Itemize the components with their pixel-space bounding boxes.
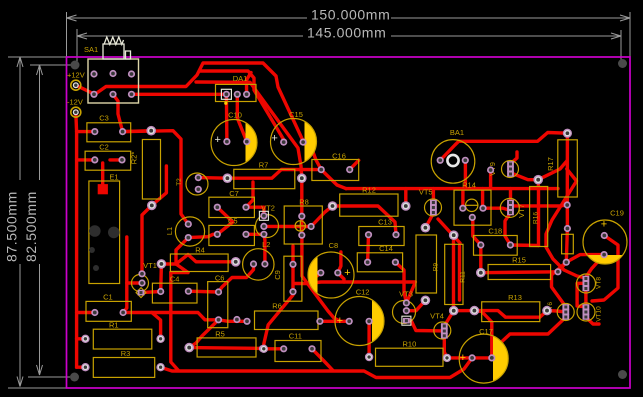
wire bbox=[546, 169, 586, 278]
wire bbox=[113, 94, 123, 131]
svg-text:+12V: +12V bbox=[67, 71, 85, 80]
svg-text:C18: C18 bbox=[488, 227, 502, 236]
transistor VT1 outline bbox=[132, 275, 149, 292]
R8 pads bbox=[298, 213, 305, 220]
svg-text:R12: R12 bbox=[362, 186, 376, 195]
svg-text:+: + bbox=[460, 352, 466, 364]
transistor VT8 outline bbox=[577, 274, 596, 293]
wire bbox=[509, 189, 512, 202]
svg-text:R2*: R2* bbox=[130, 152, 139, 165]
wire bbox=[481, 270, 558, 274]
SA1 pads bbox=[90, 70, 97, 77]
R4 pads bbox=[157, 259, 167, 269]
svg-text:C3: C3 bbox=[99, 114, 109, 123]
resistor R3 bbox=[93, 358, 154, 378]
svg-text:E1: E1 bbox=[109, 173, 118, 182]
wire bbox=[333, 206, 397, 235]
R12 pads bbox=[328, 201, 338, 211]
svg-text:R15: R15 bbox=[512, 256, 526, 265]
capacitor C15 outline bbox=[271, 119, 317, 165]
svg-text:+: + bbox=[271, 133, 277, 145]
VT1 pads bbox=[138, 270, 145, 277]
svg-text:T2: T2 bbox=[176, 178, 183, 186]
wire bbox=[188, 234, 217, 237]
inductor L2 outline bbox=[243, 249, 274, 280]
svg-text:C9: C9 bbox=[273, 270, 282, 280]
svg-text:150.000mm: 150.000mm bbox=[311, 7, 390, 23]
wire bbox=[127, 237, 142, 283]
IC DA1 bbox=[216, 84, 257, 101]
wire bbox=[338, 252, 341, 273]
svg-text:C2: C2 bbox=[99, 143, 109, 152]
svg-text:+: + bbox=[601, 219, 607, 231]
VT9 pads bbox=[507, 161, 514, 167]
via bbox=[233, 316, 240, 323]
wire bbox=[123, 131, 189, 224]
wire bbox=[141, 292, 161, 293]
wire bbox=[584, 289, 587, 307]
via bbox=[487, 166, 494, 173]
C15 pads bbox=[280, 139, 287, 146]
wire bbox=[346, 187, 558, 190]
svg-text:VT10: VT10 bbox=[596, 306, 603, 322]
wire bbox=[74, 112, 78, 367]
wire bbox=[264, 225, 311, 229]
C3 pads bbox=[91, 128, 98, 135]
svg-text:+: + bbox=[337, 315, 343, 327]
wire bbox=[495, 317, 566, 348]
potentiometer R8 bbox=[284, 206, 322, 244]
C20 pads bbox=[564, 225, 571, 232]
transistor VT4 outline bbox=[434, 322, 451, 339]
R1 pads bbox=[81, 335, 89, 343]
transistor VT7 outline bbox=[500, 198, 519, 217]
wire bbox=[511, 205, 568, 206]
wire bbox=[511, 161, 567, 180]
VT10 pads bbox=[583, 304, 590, 310]
C13 pads bbox=[365, 231, 372, 238]
capacitor C18 bbox=[474, 236, 518, 256]
svg-text:C10: C10 bbox=[228, 111, 242, 120]
wire bbox=[264, 347, 284, 350]
wire bbox=[189, 348, 264, 349]
wire bbox=[123, 313, 218, 320]
C11 pads bbox=[280, 345, 287, 352]
wire bbox=[438, 219, 460, 243]
transistor VT9 outline bbox=[502, 161, 519, 178]
capacitor C4 bbox=[152, 283, 197, 303]
wire bbox=[171, 271, 188, 274]
connector SA1 outline bbox=[88, 59, 139, 103]
VT6 pads bbox=[562, 304, 569, 310]
wire bbox=[566, 255, 604, 263]
C4 pads bbox=[157, 288, 164, 295]
capacitor C14 bbox=[357, 253, 402, 272]
wire bbox=[101, 163, 104, 184]
svg-text:R7: R7 bbox=[259, 161, 269, 170]
resistor R7 bbox=[234, 169, 295, 188]
resistor R6 bbox=[255, 311, 319, 330]
svg-text:L1: L1 bbox=[165, 227, 174, 235]
wire bbox=[505, 213, 511, 246]
svg-text:C17: C17 bbox=[479, 327, 493, 336]
plug symbol bbox=[103, 44, 131, 59]
wire bbox=[77, 130, 95, 133]
R5 pads bbox=[184, 343, 194, 353]
wire bbox=[176, 264, 188, 273]
wire bbox=[452, 241, 455, 306]
battery BA1 bbox=[431, 140, 475, 184]
svg-text:R13: R13 bbox=[508, 293, 522, 302]
svg-text:C5: C5 bbox=[228, 217, 238, 226]
capacitor C10 outline bbox=[211, 120, 257, 166]
svg-text:R16: R16 bbox=[533, 212, 540, 224]
capacitor C5 bbox=[209, 225, 255, 245]
wire bbox=[176, 238, 188, 264]
wire bbox=[95, 63, 303, 141]
wire bbox=[537, 180, 541, 246]
svg-text:87.500mm: 87.500mm bbox=[4, 191, 20, 262]
wire bbox=[461, 189, 464, 209]
transistor VT5 outline bbox=[425, 199, 442, 216]
svg-text:VT3: VT3 bbox=[399, 290, 413, 299]
svg-text:C16: C16 bbox=[332, 152, 346, 161]
wire bbox=[479, 245, 482, 273]
svg-text:R17: R17 bbox=[546, 157, 555, 171]
capacitor C19 outline bbox=[583, 220, 627, 264]
R9 pads bbox=[421, 223, 431, 233]
wire bbox=[196, 82, 302, 178]
wire bbox=[474, 311, 491, 358]
wire bbox=[110, 158, 122, 161]
svg-text:VT8: VT8 bbox=[595, 277, 602, 289]
wire bbox=[176, 255, 236, 265]
capacitor C9 bbox=[284, 256, 302, 301]
origin marker bottom-left bbox=[70, 373, 79, 382]
R15 pads bbox=[476, 268, 486, 278]
svg-text:DA1: DA1 bbox=[233, 74, 248, 83]
via bbox=[563, 129, 572, 138]
svg-text:R3: R3 bbox=[121, 349, 131, 358]
capacitor C12 outline bbox=[335, 297, 384, 346]
C7 pads bbox=[214, 204, 221, 211]
wire bbox=[350, 160, 359, 169]
capacitor C15 fill bbox=[305, 121, 317, 161]
capacitor C20 bbox=[562, 234, 574, 254]
capacitor C8 outline bbox=[308, 252, 354, 298]
wire bbox=[577, 283, 586, 306]
via bbox=[260, 345, 268, 353]
wire bbox=[458, 246, 461, 300]
inductor L1 outline bbox=[175, 217, 204, 246]
BA1 pads bbox=[437, 157, 444, 164]
capacitor C6 bbox=[208, 282, 228, 328]
capacitor C1 bbox=[86, 301, 131, 321]
wire bbox=[566, 133, 570, 205]
wire bbox=[246, 233, 264, 236]
svg-text:C8: C8 bbox=[329, 241, 339, 250]
DA1 pads bbox=[221, 89, 231, 99]
wire bbox=[552, 262, 567, 307]
wire bbox=[444, 336, 447, 358]
wire bbox=[264, 234, 265, 264]
transistor VT6 outline bbox=[557, 304, 574, 321]
resistor R16 bbox=[530, 187, 548, 247]
resistor R1 bbox=[93, 329, 152, 349]
svg-text:VT7: VT7 bbox=[517, 204, 526, 218]
capacitor C2 bbox=[85, 151, 131, 170]
resistor R12 bbox=[340, 194, 398, 216]
C10 pads bbox=[223, 138, 230, 145]
wire bbox=[338, 273, 344, 282]
VT8 pads bbox=[583, 276, 590, 282]
wire bbox=[481, 189, 484, 209]
wire bbox=[295, 282, 308, 285]
VT4 pads bbox=[441, 323, 448, 329]
capacitor C17 fill bbox=[493, 336, 508, 381]
wire bbox=[312, 349, 333, 371]
wire bbox=[133, 93, 226, 96]
svg-text:R1: R1 bbox=[109, 321, 119, 330]
wire bbox=[159, 264, 163, 292]
wire bbox=[425, 213, 433, 227]
wire bbox=[320, 320, 349, 323]
R11 pads bbox=[449, 230, 459, 240]
svg-text:C11: C11 bbox=[289, 332, 302, 341]
C19 pads bbox=[601, 232, 608, 239]
svg-text:SA1: SA1 bbox=[84, 45, 98, 54]
wire bbox=[586, 255, 604, 278]
capacitor C12 fill bbox=[372, 300, 384, 342]
C16 pads bbox=[318, 166, 325, 173]
wire bbox=[308, 284, 341, 322]
resistor R2* bbox=[142, 140, 160, 200]
wire bbox=[474, 311, 547, 318]
wire bbox=[171, 273, 178, 371]
wire bbox=[464, 160, 467, 188]
wire bbox=[198, 176, 227, 180]
transistor T2 outline bbox=[186, 173, 208, 195]
resistor R17 bbox=[558, 140, 578, 197]
capacitor C19 fill bbox=[587, 255, 622, 264]
resistor R4 bbox=[170, 254, 228, 272]
wire bbox=[77, 337, 86, 340]
svg-text:R11: R11 bbox=[459, 271, 466, 283]
R7 pads bbox=[223, 173, 233, 183]
wire bbox=[395, 262, 406, 303]
wire bbox=[247, 73, 252, 95]
svg-text:C15: C15 bbox=[289, 110, 303, 119]
svg-text:82.500mm: 82.500mm bbox=[23, 191, 39, 262]
svg-text:VT1: VT1 bbox=[143, 261, 157, 270]
svg-text:C7: C7 bbox=[229, 189, 239, 198]
R17 pad bbox=[564, 201, 571, 208]
svg-text:R8: R8 bbox=[299, 198, 309, 207]
C1 pads bbox=[91, 309, 98, 316]
wire bbox=[219, 320, 248, 322]
R6 pads bbox=[243, 318, 250, 325]
origin marker top-left bbox=[71, 61, 80, 70]
resistor R9 bbox=[416, 235, 437, 293]
wire bbox=[227, 169, 321, 178]
wire bbox=[123, 283, 127, 313]
T2 pads bbox=[195, 174, 202, 181]
resistor R13 bbox=[482, 302, 540, 322]
capacitor E1 bbox=[89, 181, 120, 284]
wire bbox=[406, 321, 444, 331]
wire bbox=[404, 189, 407, 206]
wire bbox=[300, 216, 303, 235]
wire bbox=[406, 300, 425, 310]
wire bbox=[77, 158, 95, 161]
wire bbox=[152, 313, 161, 339]
resistor R15 bbox=[488, 265, 550, 280]
wire bbox=[152, 166, 167, 205]
wire bbox=[218, 264, 254, 293]
capacitor C7 bbox=[209, 197, 255, 217]
R13 pads bbox=[470, 306, 480, 316]
C6 pads bbox=[215, 288, 222, 295]
wire bbox=[367, 321, 370, 357]
svg-text:BA1: BA1 bbox=[450, 128, 464, 137]
wire bbox=[454, 309, 475, 313]
wire bbox=[161, 262, 176, 265]
wire bbox=[246, 207, 264, 216]
wire bbox=[142, 205, 152, 273]
C2 pads bbox=[91, 156, 98, 163]
wire bbox=[483, 208, 511, 210]
svg-text:C13: C13 bbox=[378, 218, 392, 227]
C17 pads bbox=[469, 354, 476, 361]
svg-text:VT4: VT4 bbox=[430, 312, 444, 321]
svg-text:R10: R10 bbox=[403, 340, 417, 349]
C18 pads bbox=[477, 241, 484, 248]
VT5 pads bbox=[430, 200, 437, 206]
wire bbox=[302, 235, 308, 283]
potentiometer R14 bbox=[454, 190, 491, 225]
wire bbox=[447, 356, 492, 359]
svg-text:C4: C4 bbox=[170, 275, 180, 284]
svg-text:+: + bbox=[214, 134, 220, 146]
R10 pads bbox=[365, 353, 373, 361]
wire bbox=[77, 366, 86, 369]
wire bbox=[311, 206, 332, 227]
transistor VT2 outline bbox=[256, 215, 279, 238]
wire bbox=[77, 311, 95, 314]
wire bbox=[264, 246, 293, 349]
svg-text:+: + bbox=[344, 267, 350, 279]
capacitor C3 bbox=[87, 123, 131, 142]
svg-text:R14: R14 bbox=[462, 181, 476, 190]
board outline bbox=[67, 57, 631, 388]
wire bbox=[440, 141, 459, 160]
svg-text:C1: C1 bbox=[103, 293, 113, 302]
wire bbox=[300, 178, 303, 216]
C5 pads bbox=[214, 231, 221, 238]
capacitor C10 fill bbox=[246, 123, 257, 163]
transistor VT3 outline bbox=[393, 301, 416, 324]
transistor VT10 outline bbox=[577, 303, 595, 321]
wire bbox=[432, 189, 435, 202]
R2* pads bbox=[146, 126, 156, 136]
wire bbox=[200, 71, 284, 140]
wire bbox=[161, 358, 473, 378]
wire bbox=[225, 94, 229, 141]
C12 pads bbox=[346, 318, 353, 325]
wire bbox=[308, 273, 321, 284]
wire bbox=[237, 94, 247, 141]
wire bbox=[444, 311, 453, 326]
C14 pads bbox=[364, 259, 371, 266]
wire bbox=[547, 311, 566, 312]
wire bbox=[123, 129, 152, 133]
origin marker top-right bbox=[618, 59, 627, 68]
R14 pads bbox=[459, 205, 466, 212]
wire bbox=[489, 170, 492, 189]
via bbox=[533, 175, 543, 185]
svg-text:C6: C6 bbox=[215, 274, 225, 283]
wire bbox=[217, 207, 233, 234]
R3 pads bbox=[81, 363, 89, 371]
svg-text:-12V: -12V bbox=[67, 98, 83, 107]
resistor R5 bbox=[197, 338, 256, 357]
C8 pads bbox=[317, 269, 324, 276]
wire bbox=[459, 133, 568, 142]
wire bbox=[189, 320, 218, 348]
resistor R11 bbox=[445, 244, 463, 304]
wire bbox=[188, 290, 218, 294]
wire bbox=[511, 152, 518, 164]
L1 pads bbox=[185, 221, 192, 228]
origin marker bottom-right bbox=[618, 370, 627, 379]
resistor R10 bbox=[376, 348, 444, 366]
wire bbox=[246, 182, 253, 207]
wire bbox=[473, 216, 481, 245]
svg-text:R4: R4 bbox=[195, 246, 205, 255]
wire bbox=[566, 229, 567, 263]
svg-text:C12: C12 bbox=[356, 288, 370, 297]
wire bbox=[366, 235, 370, 263]
capacitor E1 polarity fill bbox=[98, 184, 108, 194]
VT7 pads bbox=[507, 200, 514, 206]
svg-text:R6: R6 bbox=[272, 302, 282, 311]
capacitor C11 bbox=[275, 341, 321, 362]
VT2 pads bbox=[259, 211, 268, 220]
wire bbox=[586, 317, 599, 324]
svg-text:C14: C14 bbox=[379, 244, 393, 253]
capacitor C17 outline bbox=[459, 334, 508, 383]
C9 pads bbox=[289, 261, 296, 268]
svg-text:R9: R9 bbox=[432, 262, 439, 271]
svg-text:R5: R5 bbox=[215, 330, 225, 339]
wire bbox=[558, 262, 566, 272]
capacitor C8 fill bbox=[308, 256, 317, 293]
svg-text:145.000mm: 145.000mm bbox=[307, 25, 386, 41]
svg-text:VT5: VT5 bbox=[419, 188, 433, 197]
dimension annotations bbox=[67, 17, 631, 19]
wire bbox=[510, 243, 538, 247]
capacitor C16 bbox=[312, 160, 359, 181]
capacitor C13 bbox=[359, 227, 404, 246]
wire bbox=[566, 205, 570, 229]
wire bbox=[321, 170, 346, 189]
wire bbox=[76, 85, 95, 94]
svg-text:C19: C19 bbox=[610, 209, 624, 218]
L2 pads bbox=[250, 260, 257, 267]
VT3 pads bbox=[403, 299, 410, 306]
wire bbox=[592, 236, 618, 302]
wire bbox=[303, 142, 321, 170]
